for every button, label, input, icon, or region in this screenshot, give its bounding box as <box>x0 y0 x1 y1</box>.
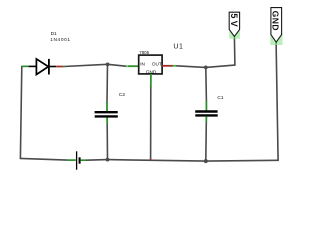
wire node B down to C1 <box>205 67 208 100</box>
svg-text:5V: 5V <box>229 13 239 28</box>
capacitor C2 <box>95 102 118 125</box>
wire node B to 5V riser <box>206 65 235 67</box>
wire 5V riser <box>233 37 236 65</box>
node B junction dot <box>204 66 208 70</box>
wire U1 GND leg down to bottom rail <box>150 87 152 160</box>
net flag GND <box>270 8 282 45</box>
wire left rail <box>20 66 21 158</box>
capacitor C1 <box>195 101 218 123</box>
svg-text:U1: U1 <box>173 44 183 51</box>
svg-text:GND: GND <box>270 11 280 31</box>
svg-text:IN: IN <box>140 62 145 67</box>
node C2-bottom junction dot <box>106 158 110 162</box>
svg-text:OUT: OUT <box>152 62 162 67</box>
svg-text:C1: C1 <box>217 95 223 101</box>
wire C1 bottom node to bottom-right corner <box>206 159 278 162</box>
svg-text:GND: GND <box>146 69 157 74</box>
wire bottom rail left (corner to battery) <box>20 158 67 160</box>
wire diode cathode to node A <box>64 64 108 66</box>
net flag 5V <box>229 12 240 38</box>
op-amp U1 (7805 regulator) <box>126 50 176 160</box>
svg-text:7805: 7805 <box>139 50 149 55</box>
wire battery to C2 bottom node <box>86 159 107 162</box>
svg-text:C2: C2 <box>119 92 125 98</box>
wire right rail up to GND flag <box>276 43 278 161</box>
node C1-bottom junction dot <box>204 159 208 163</box>
node A junction dot <box>106 63 110 67</box>
diode D1 <box>22 59 65 75</box>
wire C2 bottom node to C1 bottom node <box>108 160 206 162</box>
battery <box>67 151 87 169</box>
wire U1 OUT to node B <box>176 66 206 68</box>
wire node A down to C2 <box>106 64 109 102</box>
wire C2 bottom leg to bottom node <box>106 124 108 159</box>
svg-text:1N4001: 1N4001 <box>50 37 71 43</box>
wire node A to U1 IN leg <box>108 64 126 66</box>
svg-text:D1: D1 <box>51 31 57 37</box>
wire C1 bottom leg to bottom node <box>205 122 208 161</box>
